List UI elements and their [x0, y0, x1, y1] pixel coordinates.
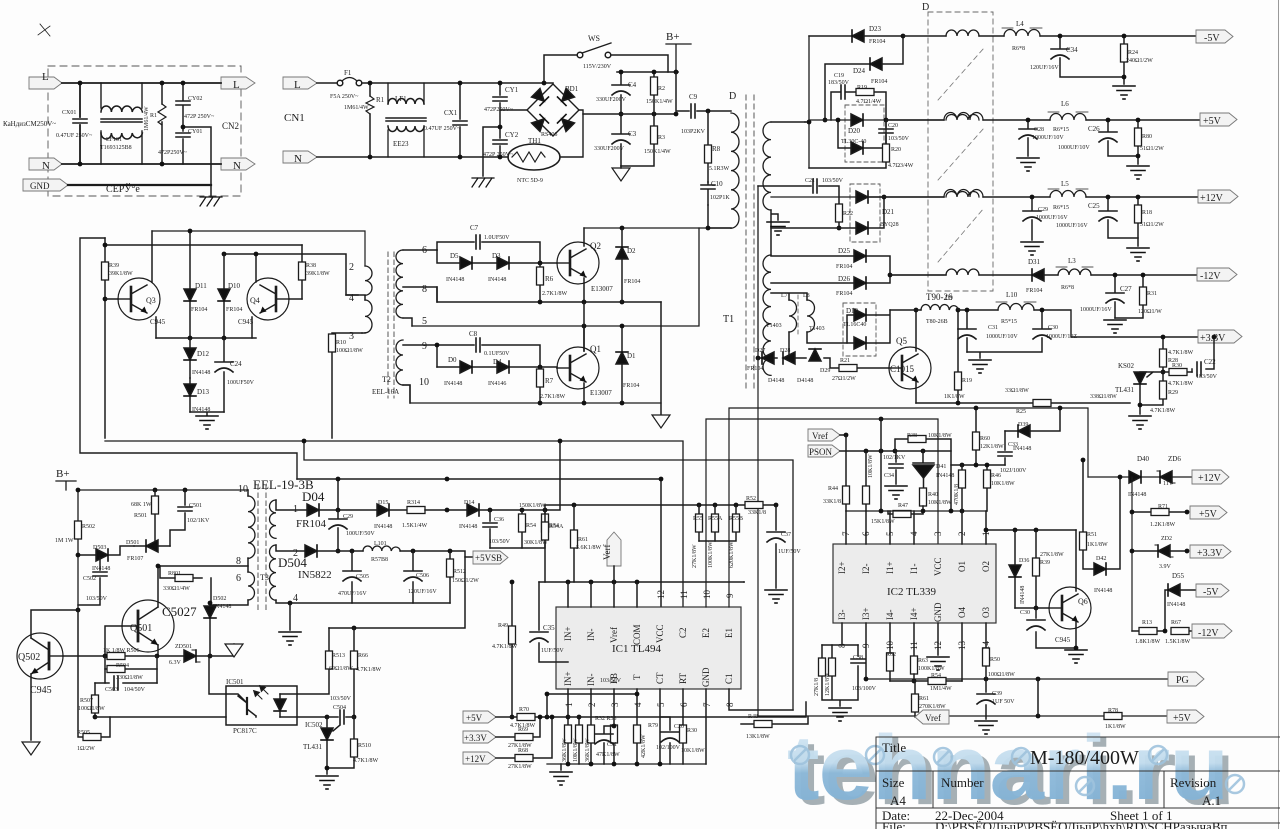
svg-text:L: L — [294, 79, 301, 91]
capacitor CY01 — [182, 129, 184, 164]
svg-text:0.1UF50V: 0.1UF50V — [484, 351, 510, 357]
resistor R507 — [94, 683, 96, 717]
svg-text:PG: PG — [1176, 675, 1189, 686]
svg-text:O3: O3 — [981, 607, 991, 618]
svg-text:C10: C10 — [711, 180, 723, 188]
svg-text:2: 2 — [349, 262, 354, 273]
tag +3.3V — [1198, 330, 1242, 343]
resistor R49 — [511, 582, 513, 717]
svg-text:Q5: Q5 — [896, 336, 907, 346]
svg-text:I1+: I1+ — [885, 561, 895, 574]
resistor R55A — [714, 505, 716, 541]
svg-text:C945: C945 — [150, 318, 166, 326]
D41 — [913, 451, 934, 463]
wire driver loop left — [80, 238, 297, 479]
row4 -12V wire — [890, 274, 1197, 276]
svg-text:C945: C945 — [238, 318, 254, 326]
svg-text:C5027: C5027 — [162, 604, 197, 619]
resistor R505 — [78, 610, 110, 737]
inductor L9 — [921, 305, 958, 311]
svg-text:C27: C27 — [1120, 285, 1132, 293]
svg-text:VCC: VCC — [933, 557, 943, 576]
svg-text:1M1/4W: 1M1/4W — [930, 686, 952, 692]
svg-text:330Ω1/8W: 330Ω1/8W — [116, 675, 143, 681]
snubber C9 to T1 — [676, 72, 731, 111]
tag +12V sense — [463, 752, 496, 764]
svg-text:C30: C30 — [1048, 325, 1058, 331]
resistor R55B — [699, 505, 736, 541]
svg-text:R1: R1 — [150, 113, 157, 119]
svg-text:D5: D5 — [450, 252, 459, 260]
resistor R48 row — [741, 717, 808, 724]
svg-text:R48: R48 — [748, 714, 758, 720]
svg-text:C31: C31 — [988, 325, 998, 331]
C30b — [1036, 608, 1076, 648]
tag +3.3V sense — [463, 731, 496, 743]
C34b — [895, 451, 897, 484]
svg-text:1: 1 — [564, 703, 574, 708]
svg-text:-5V: -5V — [1203, 587, 1219, 598]
svg-text:5: 5 — [656, 702, 666, 707]
svg-text:R25: R25 — [1016, 409, 1026, 415]
resistor R55 — [698, 505, 700, 541]
svg-text:Q502: Q502 — [18, 652, 40, 663]
transformer T1 secondary lower — [763, 255, 771, 375]
svg-text:IN4148: IN4148 — [1128, 492, 1146, 498]
supervisor bus — [1131, 477, 1133, 631]
svg-text:R501: R501 — [134, 513, 147, 519]
svg-text:T1: T1 — [723, 314, 734, 325]
svg-text:R18: R18 — [1142, 210, 1152, 216]
svg-text:C30: C30 — [1020, 610, 1030, 616]
bridge rectifier BD1 — [527, 84, 579, 136]
inductor L6 — [1050, 114, 1086, 121]
svg-text:IN5822: IN5822 — [298, 569, 332, 581]
svg-text:D21: D21 — [882, 208, 895, 216]
svg-text:IN4148: IN4148 — [92, 566, 110, 572]
wire driver rail bias — [105, 244, 302, 246]
svg-text:R29: R29 — [1168, 390, 1178, 396]
resistor R506 — [105, 655, 157, 657]
svg-text:D501: D501 — [126, 540, 139, 546]
ground C37 — [765, 590, 787, 603]
svg-text:10K1/8W: 10K1/8W — [928, 433, 952, 439]
svg-text:R55: R55 — [693, 516, 703, 522]
svg-text:FR104: FR104 — [623, 383, 639, 389]
svg-text:12K1/8W: 12K1/8W — [980, 444, 1004, 450]
svg-text:IN4148: IN4148 — [192, 370, 210, 376]
svg-text:FR104: FR104 — [836, 291, 852, 297]
IC501 external wiring — [95, 656, 327, 717]
svg-text:C19: C19 — [834, 73, 844, 79]
svg-text:+5V: +5V — [466, 713, 483, 723]
svg-text:470UF/16V: 470UF/16V — [338, 591, 367, 597]
resistor R19 — [957, 310, 959, 403]
svg-text:120UF/16V: 120UF/16V — [408, 589, 437, 595]
svg-text:4.7Ω1/4W: 4.7Ω1/4W — [856, 99, 882, 105]
svg-text:51Ω1/2W: 51Ω1/2W — [1140, 146, 1164, 152]
svg-text:102/1KV: 102/1KV — [883, 455, 906, 461]
svg-text:IN4148: IN4148 — [1013, 446, 1031, 452]
svg-text:D504: D504 — [278, 555, 307, 570]
svg-text:tehnari.ru: tehnari.ru — [787, 717, 1228, 820]
top bus y=410 — [879, 417, 884, 422]
tag -5V — [1196, 30, 1233, 43]
svg-text:IN4146: IN4146 — [488, 381, 506, 387]
svg-text:27Ω1/2W: 27Ω1/2W — [832, 376, 856, 382]
+3.3V rail L9 L10 — [890, 310, 1198, 337]
wire mid rail — [583, 113, 676, 115]
svg-text:D26: D26 — [838, 275, 851, 283]
T2 pin9 lead — [403, 344, 437, 346]
svg-text:1.2K1/8W: 1.2K1/8W — [1150, 522, 1176, 528]
svg-text:C36: C36 — [494, 517, 504, 523]
svg-text:5.1R3W: 5.1R3W — [709, 166, 730, 172]
svg-text:L7: L7 — [781, 293, 788, 299]
svg-text:R10: R10 — [336, 340, 346, 346]
svg-text:C21: C21 — [805, 178, 815, 184]
svg-text:1.0UF50V: 1.0UF50V — [484, 235, 510, 241]
svg-text:-5V: -5V — [1204, 33, 1220, 44]
wire primary return — [708, 205, 731, 228]
svg-text:I2-: I2- — [861, 564, 871, 575]
svg-text:11: 11 — [679, 590, 689, 599]
svg-text:F5A 250V~: F5A 250V~ — [330, 94, 359, 100]
transistor Q502 C945 — [17, 633, 63, 679]
wire +5VSB down branch — [329, 557, 465, 628]
capacitor C503 — [105, 669, 157, 683]
svg-text:CY01: CY01 — [188, 129, 202, 135]
svg-text:D42: D42 — [1096, 556, 1106, 562]
svg-text:10K1/8W: 10K1/8W — [991, 481, 1015, 487]
svg-text:R68: R68 — [518, 748, 528, 754]
R60 column — [975, 408, 977, 465]
resistor R54 — [521, 510, 523, 548]
svg-text:-12V: -12V — [1198, 628, 1219, 639]
svg-text:FR104: FR104 — [747, 366, 763, 372]
svg-text:9: 9 — [725, 593, 735, 598]
connector tag N out — [221, 158, 255, 170]
svg-text:4.7K1/8W: 4.7K1/8W — [353, 758, 379, 764]
svg-text:FR104: FR104 — [191, 307, 207, 313]
wire source rail bottom — [403, 385, 661, 403]
svg-text:103/100V: 103/100V — [852, 686, 877, 692]
svg-text:C20: C20 — [888, 123, 898, 129]
svg-text:1000UF/16V: 1000UF/16V — [1036, 215, 1068, 221]
capacitor CY1 — [499, 83, 501, 125]
svg-text:10K1/8W: 10K1/8W — [928, 500, 952, 506]
svg-text:39K1/8W: 39K1/8W — [109, 271, 133, 277]
IC1 body — [556, 607, 741, 689]
choke winding row4 — [946, 269, 979, 275]
svg-text:IN+: IN+ — [563, 626, 573, 641]
common choke dashed box — [928, 12, 993, 291]
svg-text:D3: D3 — [492, 252, 501, 260]
svg-text:R50: R50 — [990, 657, 1000, 663]
svg-text:C501: C501 — [189, 503, 202, 509]
capacitor CX1 — [459, 83, 461, 157]
svg-text:Vref: Vref — [812, 431, 828, 441]
PG long wire — [866, 678, 1168, 680]
resistor R38 — [301, 245, 303, 299]
svg-text:R52: R52 — [746, 496, 756, 502]
svg-text:C34: C34 — [884, 473, 894, 479]
diode D31 FR104 — [1032, 269, 1044, 281]
capacitor C27 — [1114, 275, 1116, 318]
svg-text:R504: R504 — [116, 663, 129, 669]
svg-text:ZD6: ZD6 — [1168, 455, 1181, 463]
scissors mark — [38, 24, 50, 36]
svg-text:4.7K1/8W: 4.7K1/8W — [1168, 350, 1194, 356]
tag -12V — [1197, 268, 1237, 281]
node L-CX01 — [78, 81, 83, 86]
pin1 IN+ net — [567, 689, 569, 764]
svg-text:R67: R67 — [1171, 620, 1181, 626]
svg-text:R7: R7 — [545, 377, 554, 385]
svg-text:VCC: VCC — [655, 624, 665, 643]
svg-text:D40: D40 — [1137, 455, 1150, 463]
svg-text:10K1/8W: 10K1/8W — [573, 738, 579, 762]
T2 pin8 lead — [403, 287, 437, 302]
svg-text:C504: C504 — [333, 705, 346, 711]
tag +12V — [1198, 190, 1238, 203]
transistor Q3 C945 — [118, 278, 160, 320]
svg-text:103/50V: 103/50V — [489, 539, 511, 545]
svg-text:1K 1/8W R506: 1K 1/8W R506 — [103, 648, 140, 654]
svg-text:R54: R54 — [526, 523, 536, 529]
svg-text:C506: C506 — [416, 573, 429, 579]
capacitor C3 — [620, 114, 622, 166]
pin5 CT cap C20 — [660, 689, 670, 764]
svg-text:IN4148: IN4148 — [1020, 586, 1026, 604]
svg-text:R39: R39 — [1040, 560, 1050, 566]
svg-text:IC2 TL339: IC2 TL339 — [887, 586, 936, 598]
svg-text:4.7K1/8W: 4.7K1/8W — [492, 644, 518, 650]
pin5 from bus — [880, 419, 882, 511]
wire L line top — [62, 82, 221, 84]
svg-text:R502: R502 — [82, 524, 95, 530]
svg-text:1M61/4W: 1M61/4W — [144, 106, 150, 131]
svg-text:+5V: +5V — [1199, 509, 1218, 520]
svg-text:E13007: E13007 — [591, 285, 613, 293]
svg-text:1000UF/10V: 1000UF/10V — [986, 334, 1018, 340]
svg-text:EEL-16A: EEL-16A — [372, 388, 399, 396]
svg-text:150K1/4W: 150K1/4W — [646, 99, 673, 105]
T2 core — [388, 252, 394, 398]
capacitor C504 — [327, 716, 354, 718]
svg-text:A4: A4 — [890, 793, 906, 808]
svg-text:338Ω1/8W: 338Ω1/8W — [1090, 394, 1117, 400]
switch WS 115/230V — [544, 55, 577, 83]
svg-text:4: 4 — [909, 531, 919, 536]
resistor R70 — [496, 716, 568, 718]
svg-text:1: 1 — [293, 504, 298, 515]
svg-text:1.5K1/8W: 1.5K1/8W — [1165, 639, 1191, 645]
resistor R31 — [1115, 275, 1143, 318]
connector tag GND — [23, 179, 68, 191]
pin2 IN- net — [590, 689, 592, 764]
C39 — [985, 679, 987, 719]
svg-text:4: 4 — [349, 293, 354, 304]
svg-text:6: 6 — [236, 573, 241, 584]
svg-text:CN1: CN1 — [284, 112, 305, 124]
tag +5V sense — [463, 711, 496, 723]
svg-text:100K1/8W: 100K1/8W — [708, 541, 714, 568]
svg-text:E1: E1 — [724, 628, 734, 638]
pin6 R37 — [865, 451, 867, 511]
capacitor C36 — [489, 510, 491, 548]
svg-text:D10: D10 — [228, 282, 241, 290]
choke LF1 — [388, 83, 424, 157]
svg-text:102J/100V: 102J/100V — [1000, 468, 1027, 474]
svg-text:8: 8 — [236, 556, 241, 567]
resistor R2 — [653, 72, 655, 114]
svg-text:I4+: I4+ — [909, 607, 919, 620]
diode D10 FR104 — [223, 254, 225, 338]
thermistor TH1 — [508, 144, 560, 170]
svg-text:10: 10 — [238, 484, 248, 495]
resistor R502 — [75, 521, 82, 539]
wire bus VCC rail — [297, 479, 661, 607]
svg-text:D4148: D4148 — [768, 378, 784, 384]
svg-text:13: 13 — [957, 641, 967, 651]
svg-text:D4: D4 — [493, 358, 502, 366]
svg-text:R1: R1 — [376, 96, 385, 104]
svg-text:D25: D25 — [838, 247, 851, 255]
svg-text:103/50V: 103/50V — [330, 696, 352, 702]
svg-text:L4: L4 — [1016, 20, 1024, 28]
svg-text:6.3V: 6.3V — [169, 660, 182, 666]
svg-text:GND: GND — [933, 602, 943, 622]
svg-text:C31: C31 — [607, 742, 617, 748]
svg-text:CY02: CY02 — [188, 96, 202, 102]
svg-text:R505: R505 — [77, 730, 90, 736]
svg-text:1000UF/10Z: 1000UF/10Z — [1046, 334, 1077, 340]
svg-text:C37: C37 — [781, 532, 791, 538]
svg-text:R21: R21 — [840, 358, 850, 364]
svg-text:Q3: Q3 — [146, 296, 156, 305]
capacitor CY02 — [182, 83, 184, 125]
svg-text:T2: T2 — [382, 375, 391, 384]
svg-text:E2: E2 — [701, 628, 711, 638]
capacitor CY2 — [499, 129, 501, 157]
svg-text:150K1/4W: 150K1/4W — [644, 149, 671, 155]
-12V R13 R67 row — [1132, 630, 1196, 632]
pin7 R44 — [845, 435, 847, 511]
ground secondary CT — [767, 222, 789, 235]
svg-text:330Ω1/4W: 330Ω1/4W — [163, 586, 190, 592]
resistor R21 — [857, 367, 889, 369]
fuse F1 — [317, 82, 337, 84]
svg-text:IN4148: IN4148 — [446, 277, 464, 283]
svg-text:6: 6 — [422, 245, 427, 256]
transistor Q501 C5027 — [122, 600, 174, 652]
svg-text:O4: O4 — [957, 607, 967, 618]
capacitor C34 — [1060, 36, 1124, 77]
diode D13 IN4148 — [189, 378, 191, 412]
svg-text:2.7K1/8W: 2.7K1/8W — [542, 291, 568, 297]
connector tag L mains — [283, 77, 317, 89]
dual schottky D19 TL16C-40 — [843, 303, 876, 356]
svg-text:1UF/50V: 1UF/50V — [541, 648, 564, 654]
svg-text:TH1: TH1 — [528, 137, 541, 145]
svg-text:5: 5 — [885, 531, 895, 536]
svg-text:10: 10 — [885, 641, 895, 651]
svg-text:270K1/8W: 270K1/8W — [919, 704, 946, 710]
wire Q2emitter to Q1collector — [583, 302, 585, 351]
svg-text:BD1: BD1 — [565, 85, 579, 93]
svg-text:D0: D0 — [448, 356, 457, 364]
svg-text:IN4148: IN4148 — [213, 604, 231, 610]
capacitor C4 — [620, 72, 622, 114]
R40 — [920, 488, 927, 506]
svg-text:TL30C-40: TL30C-40 — [841, 139, 866, 145]
svg-text:R32 R33: R32 R33 — [595, 716, 617, 722]
capacitor C506 — [412, 551, 414, 603]
capacitor C24 — [223, 338, 225, 412]
wire secondary bus left — [808, 36, 810, 168]
+12V D40 ZD6 row — [1088, 476, 1196, 478]
diode D503 — [78, 546, 134, 555]
svg-text:R51: R51 — [1087, 532, 1097, 538]
svg-text:D55: D55 — [1172, 572, 1185, 580]
connector tag L (line input) — [29, 77, 62, 89]
svg-text:Number: Number — [941, 775, 984, 790]
svg-text:B+: B+ — [666, 31, 680, 43]
svg-text:FR107: FR107 — [127, 556, 143, 562]
resistor R3 — [621, 114, 654, 166]
wire CY junction to chassis — [183, 127, 211, 185]
svg-text:Q1: Q1 — [590, 344, 601, 354]
svg-text:D28: D28 — [780, 348, 790, 354]
svg-text:A.1: A.1 — [1202, 793, 1221, 808]
+5V R71 row — [1132, 511, 1187, 513]
svg-text:R31: R31 — [1147, 291, 1157, 297]
capacitor C10 — [707, 182, 709, 205]
svg-text:R46: R46 — [991, 473, 1001, 479]
diode D26 FR104 — [771, 275, 890, 283]
svg-text:R38: R38 — [907, 433, 917, 439]
-5V D55 row — [1165, 590, 1196, 631]
dual diode D21 BYQ28 — [850, 184, 880, 242]
svg-text:LF101: LF101 — [106, 137, 122, 143]
svg-text:WS: WS — [588, 34, 600, 43]
svg-text:D: D — [729, 91, 736, 102]
svg-text:D31: D31 — [1028, 258, 1041, 266]
svg-text:9: 9 — [422, 341, 427, 352]
ground T3 — [279, 632, 301, 645]
wire N line bottom — [62, 163, 221, 165]
R47 — [888, 511, 923, 514]
svg-text:100UF/50V: 100UF/50V — [346, 531, 375, 537]
capacitor C25 — [1108, 197, 1138, 238]
svg-text:C945: C945 — [1055, 636, 1071, 644]
svg-text:R6*8: R6*8 — [1012, 46, 1025, 52]
svg-text:FR104: FR104 — [836, 264, 852, 270]
svg-text:102/100V: 102/100V — [656, 745, 681, 751]
FB network R33 C31 — [613, 689, 615, 764]
R41 — [961, 465, 963, 511]
pin stubs E2 E1 up — [706, 408, 1088, 607]
svg-text:10: 10 — [419, 377, 429, 388]
earth ground mains — [472, 178, 494, 187]
svg-text:12: 12 — [933, 641, 943, 650]
sense cluster under pin8 — [822, 645, 858, 706]
svg-text:Revision: Revision — [1170, 775, 1217, 790]
svg-text:T1403: T1403 — [766, 323, 782, 329]
svg-text:C39: C39 — [992, 691, 1002, 697]
choke LF101 — [101, 83, 142, 164]
